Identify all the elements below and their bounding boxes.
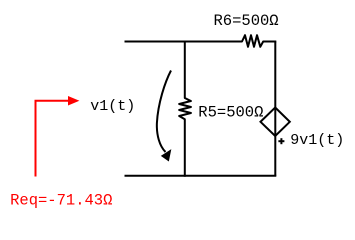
svg-text:9v1(t): 9v1(t) [290,132,344,149]
svg-text:R6=500Ω: R6=500Ω [214,12,279,30]
svg-text:Req=-71.43Ω: Req=-71.43Ω [10,192,112,210]
svg-text:v1(t): v1(t) [90,98,135,115]
svg-text:R5=500Ω: R5=500Ω [198,104,263,122]
